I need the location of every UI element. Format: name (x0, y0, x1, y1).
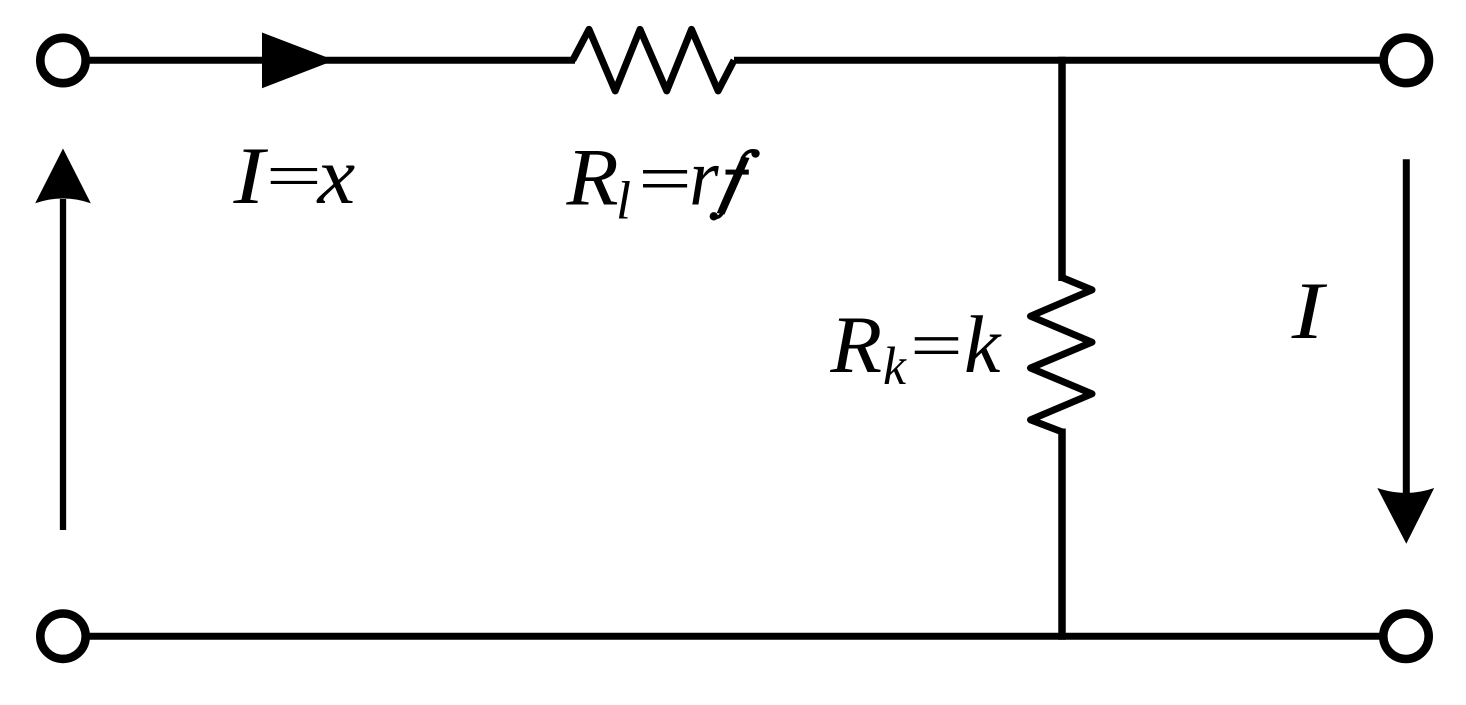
terminal top-left (40, 38, 85, 83)
label I=x (232, 130, 355, 222)
terminal bottom-left (40, 614, 85, 659)
svg-text:R: R (565, 132, 618, 223)
wire bottom (89, 633, 1380, 640)
svg-text:I: I (1291, 266, 1328, 356)
current direction arrow (top) (262, 33, 335, 89)
terminal top-right (1384, 38, 1429, 83)
svg-text:R: R (829, 300, 882, 391)
svg-text:x: x (316, 131, 356, 221)
wire vertical lower segment (1058, 429, 1066, 640)
label Rl=rf (565, 132, 759, 231)
label Rk=k (829, 299, 1002, 396)
arrow input current (left, up) (35, 149, 91, 531)
svg-text:k: k (964, 299, 1002, 390)
wire top-right segment (734, 57, 1380, 64)
resistor Rk (1031, 278, 1093, 432)
wire vertical upper segment (1058, 57, 1066, 281)
svg-text:=: = (904, 309, 967, 383)
svg-text:=: = (259, 141, 326, 212)
arrow output current I (right, down) (1377, 159, 1434, 544)
wire top-left segment (89, 57, 575, 64)
terminal bottom-right (1383, 614, 1428, 659)
svg-text:r: r (689, 133, 719, 224)
resistor Rl (573, 29, 734, 91)
svg-text:l: l (616, 171, 631, 231)
svg-text:=: = (632, 140, 696, 217)
